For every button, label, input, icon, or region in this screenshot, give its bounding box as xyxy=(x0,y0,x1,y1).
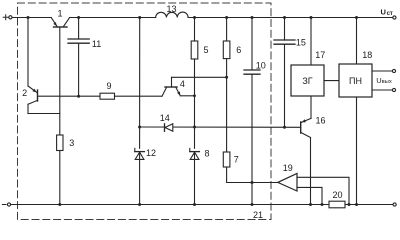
svg-text:5: 5 xyxy=(203,45,208,55)
wire capacitor 15 bottom lead xyxy=(284,44,286,127)
wire from top rail down to transistor 2 emitter xyxy=(27,18,29,87)
block 18 voltage converter PN xyxy=(339,64,372,97)
diode 14 (cathode left, inline on node wire) xyxy=(165,124,173,132)
junction dot base wire at resistor 6 line xyxy=(225,76,228,79)
capacitor 10 xyxy=(244,70,260,74)
wire feed top rail to block 18 xyxy=(356,18,358,65)
svg-text:13: 13 xyxy=(166,4,176,14)
terminal + (input positive) xyxy=(3,15,12,20)
svg-text:вых: вых xyxy=(382,79,392,85)
wire capacitor 15 top lead xyxy=(284,18,286,41)
svg-text:3: 3 xyxy=(69,138,74,148)
svg-text:12: 12 xyxy=(146,148,156,158)
wire block 18 upper output xyxy=(372,70,392,72)
wire resistor 7 down and right to amplifier 19 output xyxy=(227,167,278,183)
wire vertical C resistor 6 top lead xyxy=(226,18,228,42)
label Uct xyxy=(381,8,393,17)
transistor 16 (PNP, emitter up) xyxy=(301,118,311,137)
svg-text:4: 4 xyxy=(180,79,185,89)
junction dot transistor 16 collector at bottom rail xyxy=(309,203,312,206)
zener diode 8 xyxy=(190,148,200,159)
wire transistor 2 collector to resistor 3 line xyxy=(28,113,60,115)
resistor 3 xyxy=(57,135,63,151)
capacitor 11 xyxy=(68,39,89,43)
svg-text:20: 20 xyxy=(332,190,342,200)
svg-text:7: 7 xyxy=(234,155,239,165)
svg-text:ст: ст xyxy=(387,11,393,17)
wire bottom rail left of resistor 20 xyxy=(11,204,329,206)
resistor 7 xyxy=(223,152,230,167)
junction dot vertical B at node wire y127 xyxy=(193,126,196,129)
svg-text:ЗГ: ЗГ xyxy=(302,76,312,86)
wire vertical B from resistor 5 down to zener 8 xyxy=(194,59,196,148)
wire zener 12 to bottom rail xyxy=(139,152,141,204)
wire node y127 from vertical A to transistor 16 base xyxy=(140,126,301,128)
wire vertical C from resistor 6 down to resistor 7 xyxy=(226,59,228,152)
junction dot resistor 6 top xyxy=(225,16,228,19)
junction dot emitter wire at vertical B xyxy=(193,94,196,97)
junction dot block 18 feed xyxy=(355,16,358,19)
terminal lower output circle xyxy=(392,88,395,91)
resistor 9 xyxy=(100,93,115,99)
svg-text:8: 8 xyxy=(204,149,209,159)
junction dot lower input at bottom rail xyxy=(321,203,324,206)
junction dot at bottom rail x252 xyxy=(251,203,254,206)
svg-text:10: 10 xyxy=(256,61,266,71)
node junction at x28 on top rail xyxy=(27,16,30,19)
wire transistor 2 base to resistor 9 xyxy=(38,95,101,97)
svg-text:15: 15 xyxy=(296,38,306,48)
wire feed top rail to block 17 xyxy=(310,18,312,66)
wire top rail from transistor 1 to inductor 13 xyxy=(70,17,156,19)
junction dot capacitor 15 top xyxy=(283,16,286,19)
label Uvyh xyxy=(376,76,392,85)
wire zener 8 to bottom rail xyxy=(194,152,196,204)
junction dot upper input at bottom rail xyxy=(348,203,351,206)
svg-text:18: 18 xyxy=(362,50,372,60)
junction dot capacitor 10 top xyxy=(251,16,254,19)
terminal upper output circle xyxy=(392,69,395,72)
transistor 2 (PNP, emitter up) xyxy=(28,86,38,114)
terminal - (input negative) xyxy=(2,203,10,206)
wire block 18 bottom to bottom rail xyxy=(356,97,358,205)
junction dot vertical A top xyxy=(138,16,141,19)
wire capacitor 10 top lead xyxy=(251,18,253,71)
wire vertical A from top rail down to zener 12 xyxy=(139,18,141,149)
wire top rail from + terminal to transistor 1 xyxy=(12,17,51,19)
terminal Uct (output top right) xyxy=(393,16,396,19)
svg-text:14: 14 xyxy=(160,113,170,123)
svg-text:9: 9 xyxy=(106,81,111,91)
wire amp output node to bottom rail xyxy=(251,183,253,205)
terminal bottom right circle xyxy=(393,203,396,206)
wire amp 19 upper input xyxy=(297,177,349,204)
block 17 master oscillator ZG xyxy=(291,65,324,96)
wire block 17 bottom to transistor 16 emitter xyxy=(310,96,312,118)
svg-text:1: 1 xyxy=(57,9,62,19)
junction dot zener 8 at bottom rail xyxy=(193,203,196,206)
junction dot capacitor 15 at node wire y127 xyxy=(283,126,286,129)
transistor 1 (PNP pass transistor, inline on top rail) xyxy=(51,18,69,28)
junction dot zener 12 at bottom rail xyxy=(138,203,141,206)
wire capacitor 11 top lead xyxy=(78,18,80,40)
wire transistor 16 collector to bottom rail xyxy=(310,138,312,205)
resistor 6 xyxy=(223,41,230,59)
svg-text:11: 11 xyxy=(92,39,101,49)
svg-text:6: 6 xyxy=(236,45,241,55)
junction dot resistor 3 at bottom rail xyxy=(58,203,61,206)
wire amp 19 lower input xyxy=(297,187,322,204)
svg-text:17: 17 xyxy=(315,50,325,60)
resistor 20 (inline on bottom rail) xyxy=(329,201,345,208)
capacitor 15 xyxy=(274,40,295,44)
svg-text:2: 2 xyxy=(22,88,27,98)
zener diode 12 xyxy=(135,148,145,159)
junction dot capacitor 11 to base wire xyxy=(77,95,80,98)
wire top rail from inductor 13 to right terminal xyxy=(188,17,393,19)
wire bottom rail right of resistor 20 xyxy=(345,204,393,206)
junction dot vertical A at node wire y127 xyxy=(138,126,141,129)
wire capacitor 10 bottom lead to amp output node xyxy=(251,74,253,182)
wire transistor 4 base to resistor 6 bottom xyxy=(172,76,227,78)
junction dot resistor 5 top xyxy=(193,16,196,19)
amplifier 19 (triangle, output to left) xyxy=(278,174,297,192)
svg-text:U: U xyxy=(381,8,386,17)
wire transistor 1 base down to resistor 3 xyxy=(59,27,61,135)
junction dot amp output at capacitor 10 line xyxy=(251,181,254,184)
junction dot block 18 line at bottom rail xyxy=(355,203,358,206)
svg-text:21: 21 xyxy=(253,210,263,220)
svg-text:ПН: ПН xyxy=(349,76,362,86)
wire capacitor 11 bottom lead xyxy=(78,43,80,96)
svg-text:19: 19 xyxy=(283,163,293,173)
inductor 13 (three arcs on top rail) xyxy=(156,12,189,17)
wire transistor 4 emitter to vertical B xyxy=(180,95,194,97)
transistor 4 (NPN, horizontal bar) xyxy=(162,77,180,96)
wire block 18 lower output xyxy=(372,89,392,91)
junction dot block 17 feed xyxy=(310,16,313,19)
wire resistor 9 to transistor 4 xyxy=(115,95,163,97)
svg-text:16: 16 xyxy=(315,116,325,126)
junction dot capacitor 11 top xyxy=(77,16,80,19)
dashed enclosure box 21 xyxy=(18,3,272,220)
wire vertical B resistor 5 top lead xyxy=(194,18,196,42)
resistor 5 xyxy=(191,41,198,59)
wire link block 17 to block 18 xyxy=(324,80,339,82)
wire resistor 3 to bottom rail xyxy=(59,151,61,205)
